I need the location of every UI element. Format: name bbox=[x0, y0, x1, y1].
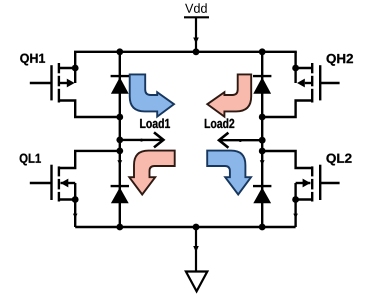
Load2 arrowhead bbox=[219, 134, 227, 147]
node Load2 tap bbox=[259, 137, 266, 144]
node QH2 source junction bbox=[292, 65, 299, 72]
wire QH1 drain riser bbox=[74, 52, 76, 83]
transistor QL2 body arrow bbox=[303, 179, 311, 188]
wire Load2 arrow line bbox=[221, 139, 262, 141]
diode D1 (upper left, pointing up) bbox=[111, 77, 129, 94]
node QL2 source junction bbox=[292, 196, 299, 203]
node bottom rail / right diode branch bbox=[259, 224, 266, 231]
diode D3 (lower left, pointing up) bbox=[111, 187, 129, 203]
diode D2 (upper right, pointing up) bbox=[253, 77, 271, 94]
wire QL1 source to bottom rail bbox=[74, 200, 76, 228]
wire QH1 to left mid node bbox=[59, 101, 120, 118]
wire Vdd stem bbox=[195, 17, 197, 52]
node Load1 tap bbox=[116, 137, 123, 144]
label Load2 bbox=[205, 118, 234, 128]
diode D4 (lower right, pointing up) bbox=[253, 187, 271, 203]
wire bottom rail bbox=[75, 226, 295, 228]
current arrow blue bottom-right bbox=[207, 151, 251, 195]
current arrow pink top-right bbox=[207, 74, 251, 116]
current direction arrowhead on QL2 source drop bbox=[293, 214, 298, 219]
wire QL2 body to source bbox=[294, 183, 296, 200]
node bottom rail / left diode branch bbox=[116, 224, 123, 231]
wire QL1 drain link bbox=[59, 151, 120, 168]
node right mid junction bbox=[259, 114, 266, 121]
diode D3 cathode bar bbox=[111, 185, 129, 187]
wire top rail bbox=[74, 51, 297, 53]
transistor QH1 (P-channel, high side left) bbox=[30, 63, 75, 103]
node bottom rail / ground bbox=[193, 224, 200, 231]
transistor QL1 body arrow bbox=[61, 179, 69, 188]
transistor QL1 (N-channel, low side left) bbox=[30, 165, 75, 202]
node QL1 drain tap bbox=[116, 148, 123, 155]
transistor QH2 (P-channel, high side right) bbox=[296, 63, 340, 103]
net label Vdd bbox=[185, 3, 207, 13]
node left mid junction bbox=[116, 114, 123, 121]
wire ground stem bbox=[195, 227, 197, 272]
Load1 arrowhead bbox=[155, 133, 163, 146]
diode D2 cathode bar bbox=[253, 75, 271, 77]
node top rail / right diode branch bbox=[259, 48, 266, 55]
diode D1 cathode bar bbox=[111, 75, 129, 77]
current direction arrowhead on ground stem bbox=[193, 246, 199, 252]
node QL2 drain tap bbox=[259, 148, 266, 155]
diode D4 cathode bar bbox=[253, 185, 271, 187]
current arrow pink bottom-left bbox=[129, 151, 174, 195]
transistor QH2 label bbox=[327, 54, 353, 66]
wire QL2 source to bottom rail bbox=[294, 200, 296, 228]
current arrow blue top-left bbox=[130, 74, 174, 116]
ground symbol bbox=[186, 272, 207, 292]
node QH1 source junction bbox=[72, 65, 79, 72]
current direction arrowhead on QL1 source drop bbox=[73, 214, 78, 219]
wire Load1 arrow line bbox=[120, 139, 162, 141]
transistor QL2 label bbox=[326, 154, 351, 166]
wire right diode branch bbox=[261, 52, 263, 227]
transistor QH1 body arrow bbox=[67, 79, 75, 88]
node top rail / Vdd bbox=[193, 48, 200, 55]
transistor QH1 label bbox=[20, 54, 45, 66]
wire QL2 drain link bbox=[262, 151, 312, 168]
current direction arrowhead on Vdd stem bbox=[193, 38, 199, 44]
wire QL1 body to source bbox=[74, 183, 76, 200]
transistor QL2 (N-channel, low side right) bbox=[296, 165, 340, 202]
wire QH2 drain riser bbox=[294, 52, 296, 83]
wire QH2 to right mid node bbox=[262, 101, 312, 118]
node QL1 source junction bbox=[72, 196, 79, 203]
label Load1 bbox=[140, 118, 170, 128]
Vdd terminal bar bbox=[184, 16, 209, 18]
node top rail / left diode branch bbox=[116, 48, 123, 55]
current direction arrowhead on left branch bbox=[117, 160, 122, 165]
transistor QH2 body arrow bbox=[297, 79, 305, 88]
current direction arrowhead on right branch bbox=[260, 160, 265, 165]
small dot on Load1 line bbox=[140, 139, 143, 142]
small dot on Load2 line bbox=[239, 139, 242, 142]
transistor QL1 label bbox=[20, 154, 41, 166]
wire left diode branch bbox=[119, 52, 121, 227]
